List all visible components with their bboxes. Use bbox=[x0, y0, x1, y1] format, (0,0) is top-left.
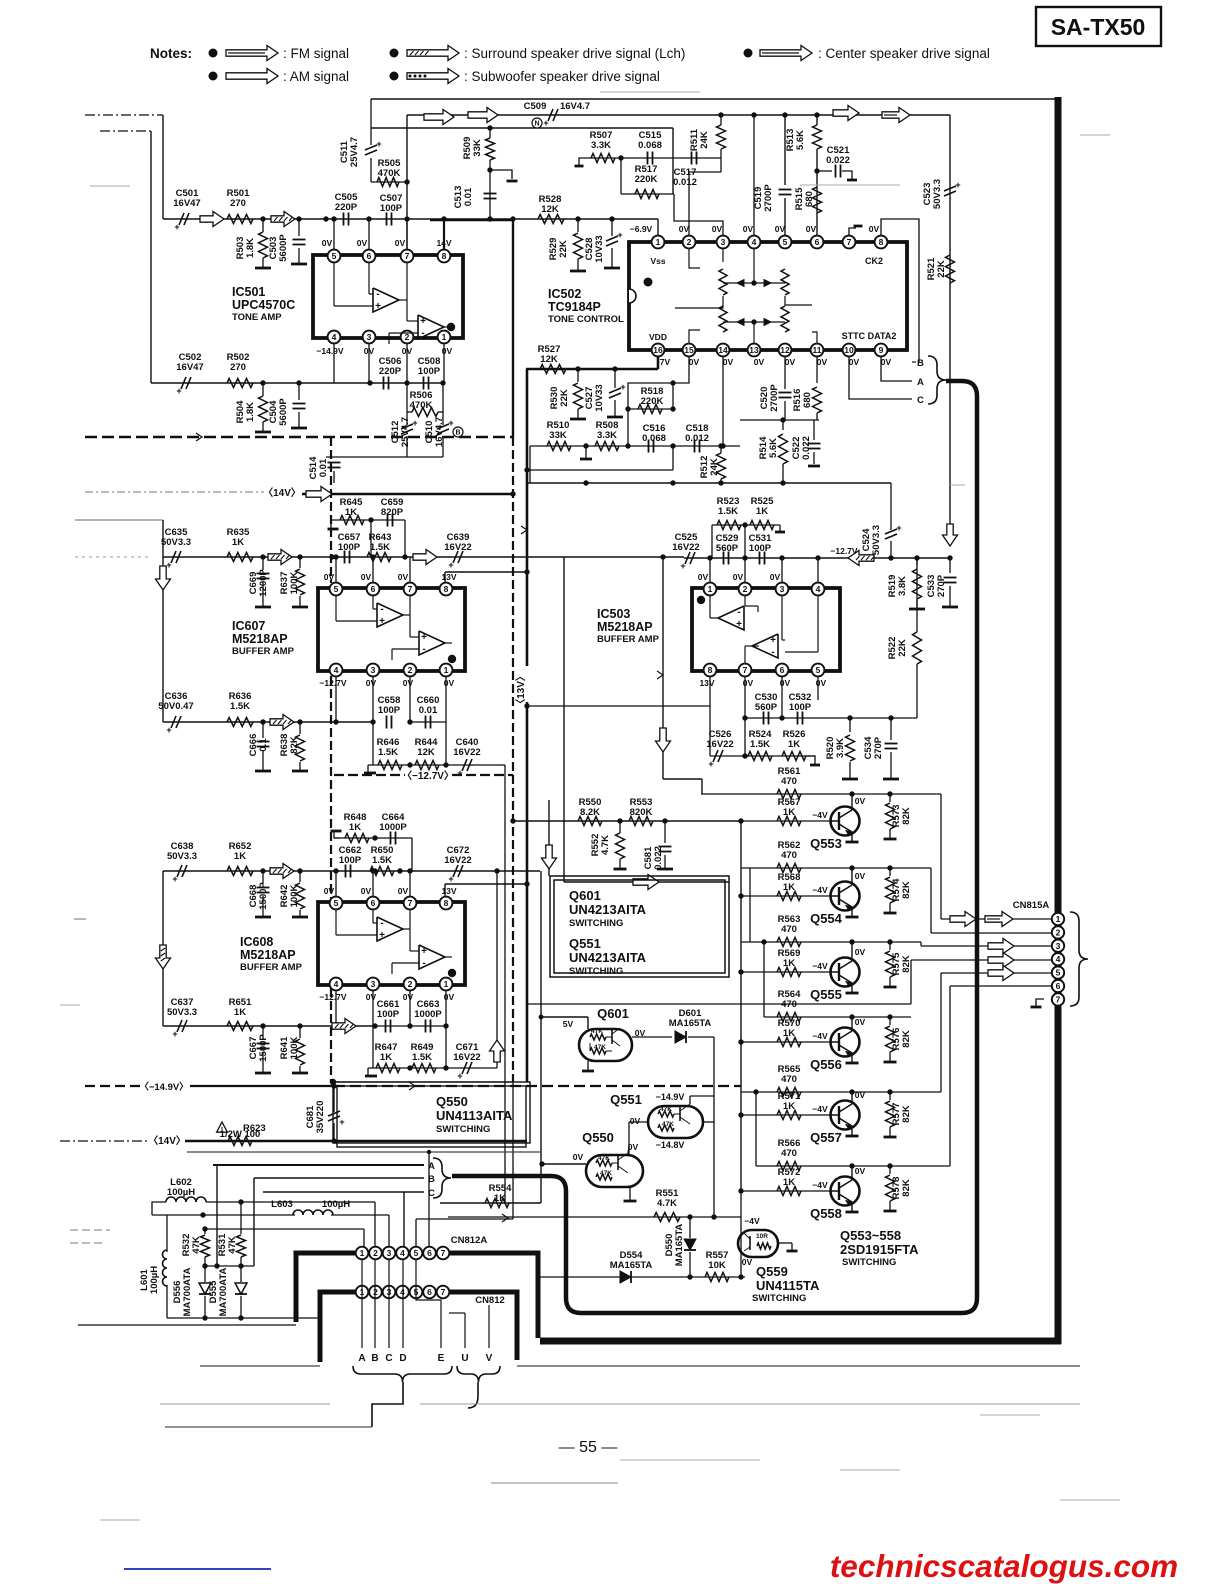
svg-text:4: 4 bbox=[752, 237, 757, 247]
resistor R575 bbox=[886, 951, 895, 977]
wire C511 up bbox=[370, 99, 372, 145]
svg-text:SWITCHING: SWITCHING bbox=[569, 918, 623, 929]
13V feed IC607 pin8 bbox=[445, 571, 527, 573]
svg-text:2: 2 bbox=[687, 237, 692, 247]
svg-text:6: 6 bbox=[1056, 981, 1061, 991]
ground C581 bbox=[657, 868, 673, 871]
IC503 pin stubs bbox=[709, 558, 711, 583]
svg-text:Q551: Q551 bbox=[569, 936, 601, 951]
svg-text:0V: 0V bbox=[361, 572, 372, 582]
brace BAC bbox=[928, 356, 946, 404]
svg-text:−12.7V: −12.7V bbox=[319, 678, 347, 688]
wire vertical x163 input bbox=[162, 115, 164, 219]
capacitor C516 bbox=[648, 440, 650, 453]
op-amp IC501 A bbox=[373, 288, 399, 312]
resistor R636 bbox=[227, 718, 253, 727]
svg-text:5: 5 bbox=[816, 665, 821, 675]
svg-text:3: 3 bbox=[1056, 941, 1061, 951]
svg-text:MA165TA: MA165TA bbox=[674, 1224, 685, 1267]
svg-text:10: 10 bbox=[844, 345, 854, 355]
collector wire Q553 bbox=[851, 794, 853, 810]
svg-text:16V22: 16V22 bbox=[453, 1052, 480, 1063]
resistor R572 bbox=[777, 1187, 801, 1196]
ground R578 bbox=[884, 1210, 897, 1213]
svg-text:0V: 0V bbox=[366, 678, 377, 688]
svg-text:5V: 5V bbox=[563, 1019, 574, 1029]
base wire R569 bbox=[741, 971, 831, 973]
blue underline bottom left bbox=[124, 1568, 271, 1570]
resistor R568 bbox=[777, 892, 801, 901]
dash marks left mid bbox=[70, 1229, 110, 1231]
svg-text:+: + bbox=[176, 386, 181, 396]
C526 R524 R526 row y756 bbox=[710, 755, 815, 757]
svg-text:+: + bbox=[174, 222, 179, 232]
brace UV tail curve bbox=[468, 1382, 478, 1408]
R646 R644 row y765 bbox=[372, 722, 374, 765]
wire y1017 stub to Q601 bbox=[541, 1016, 588, 1018]
svg-text:3: 3 bbox=[367, 332, 372, 342]
svg-text:Q555: Q555 bbox=[810, 987, 842, 1002]
arrow surround y557 bbox=[268, 550, 292, 565]
node x490 bbox=[487, 216, 492, 221]
svg-text:Q601: Q601 bbox=[569, 888, 601, 903]
svg-text:7: 7 bbox=[847, 237, 852, 247]
svg-text:+: + bbox=[448, 874, 453, 884]
svg-text:14: 14 bbox=[718, 345, 728, 355]
svg-text:+: + bbox=[172, 1029, 177, 1039]
diode D556 bbox=[199, 1283, 211, 1294]
svg-text:0.01: 0.01 bbox=[419, 705, 438, 716]
svg-text:33K: 33K bbox=[549, 430, 567, 441]
svg-text:6: 6 bbox=[427, 1287, 432, 1297]
wire x541 long vertical from y871 bbox=[540, 871, 542, 1203]
capacitor C513 bbox=[484, 193, 497, 195]
ground R648 hook bbox=[331, 830, 342, 833]
svg-text:1.5K: 1.5K bbox=[378, 747, 398, 758]
left vertical x163 IC608 with arrow bbox=[162, 871, 164, 1026]
svg-text:16: 16 bbox=[653, 345, 663, 355]
svg-text:220P: 220P bbox=[335, 202, 358, 213]
svg-text:BUFFER AMP: BUFFER AMP bbox=[597, 634, 660, 645]
bold dashed rail y437 bbox=[85, 436, 513, 438]
svg-text:270: 270 bbox=[230, 198, 246, 209]
resistor R623 bbox=[228, 1137, 252, 1146]
svg-text:+: + bbox=[617, 230, 622, 240]
svg-text:Q550: Q550 bbox=[582, 1130, 614, 1145]
resistor R531 bbox=[237, 1235, 246, 1257]
svg-text:SWITCHING: SWITCHING bbox=[842, 1257, 896, 1268]
IC503 pin 7 bbox=[739, 664, 752, 677]
svg-text:100P: 100P bbox=[418, 366, 441, 377]
svg-text:100µH: 100µH bbox=[322, 1199, 350, 1210]
capacitor C515 bbox=[647, 152, 649, 165]
svg-text:CN812A: CN812A bbox=[451, 1235, 488, 1246]
wire vertical x407 to pin7 bbox=[406, 115, 408, 250]
CN812A pin 4 bbox=[396, 1247, 409, 1260]
svg-text:6: 6 bbox=[371, 898, 376, 908]
Q601/Q551 label box outer bbox=[550, 876, 729, 977]
capacitor C659 bbox=[387, 514, 389, 527]
svg-text:7: 7 bbox=[743, 665, 748, 675]
svg-text:1K: 1K bbox=[788, 739, 800, 750]
IC608 internal wires bbox=[335, 910, 337, 935]
wire IC502 pin16 bold row bbox=[526, 368, 658, 371]
svg-text:+: + bbox=[375, 301, 381, 312]
IC607 pin 5 bbox=[330, 583, 343, 596]
svg-text:4.7K: 4.7K bbox=[657, 1198, 677, 1209]
svg-text:Q553: Q553 bbox=[810, 836, 842, 851]
svg-text:1: 1 bbox=[708, 584, 713, 594]
resistor R510 bbox=[547, 442, 571, 451]
IC608 pin 5 bbox=[330, 897, 343, 910]
bold solid vertical x513 upper bbox=[512, 219, 514, 437]
IC608 pin 7 bbox=[404, 897, 417, 910]
collector wire Q556 bbox=[851, 1017, 853, 1031]
svg-text:2: 2 bbox=[408, 979, 413, 989]
svg-text:〈13V〉: 〈13V〉 bbox=[514, 671, 527, 709]
svg-text:50V3.3: 50V3.3 bbox=[871, 525, 882, 555]
R523 R525 row bbox=[712, 524, 780, 526]
svg-text:12K: 12K bbox=[417, 747, 435, 758]
svg-text:6: 6 bbox=[780, 665, 785, 675]
capacitor C510 bbox=[437, 424, 449, 429]
svg-text:0V: 0V bbox=[742, 1257, 753, 1267]
circled B mark bbox=[453, 427, 463, 437]
IC608 pin 8 bbox=[440, 897, 453, 910]
chevron on y437 rail bbox=[196, 433, 202, 441]
Q601 emitter ground bbox=[587, 1061, 589, 1070]
IC503 internal wires bbox=[709, 596, 711, 618]
IC502 pin 1 bbox=[652, 236, 665, 249]
arrow top rail right 1 bbox=[833, 106, 859, 121]
svg-text:: Surround speaker drive signa: : Surround speaker drive signal (Lch) bbox=[464, 46, 685, 61]
wire x673 down to R517 row bbox=[672, 128, 674, 194]
svg-text:1: 1 bbox=[442, 332, 447, 342]
wire y1219 to CN812A pin5 bbox=[416, 1218, 513, 1220]
svg-text:0V: 0V bbox=[357, 238, 368, 248]
CN812A pin 5 bbox=[410, 1247, 423, 1260]
svg-text:E: E bbox=[438, 1353, 445, 1364]
resistor R649 bbox=[412, 1064, 436, 1073]
svg-text:: FM signal: : FM signal bbox=[283, 46, 349, 61]
resistor R504 bbox=[259, 396, 268, 422]
svg-text:A: A bbox=[358, 1353, 365, 1364]
svg-text:1.5K: 1.5K bbox=[372, 855, 392, 866]
resistor R518 bbox=[638, 405, 662, 414]
legend bullet surround bbox=[390, 49, 399, 58]
svg-text:1K: 1K bbox=[232, 537, 244, 548]
svg-text:B: B bbox=[917, 358, 924, 369]
IC502 pin 12 bbox=[779, 344, 792, 357]
svg-text:0V: 0V bbox=[361, 886, 372, 896]
svg-text:3: 3 bbox=[780, 584, 785, 594]
svg-text:SWITCHING: SWITCHING bbox=[752, 1293, 806, 1304]
resistor R561 bbox=[777, 790, 801, 799]
legend bullet FM bbox=[209, 49, 218, 58]
svg-text:-: - bbox=[380, 918, 383, 929]
capacitor C526 bbox=[713, 750, 718, 762]
svg-text:270: 270 bbox=[230, 362, 246, 373]
svg-text:82K: 82K bbox=[901, 807, 912, 825]
CN812A pin 6 bbox=[423, 1247, 436, 1260]
svg-text:270P: 270P bbox=[873, 736, 884, 759]
svg-text:1K: 1K bbox=[783, 1028, 795, 1039]
resistor R521 bbox=[946, 255, 955, 283]
wire x817 to pin6 bbox=[816, 149, 818, 242]
svg-text:2: 2 bbox=[743, 584, 748, 594]
resistor R576 bbox=[886, 1026, 895, 1052]
resistor R557 bbox=[705, 1273, 729, 1282]
L601 box bottom wire bbox=[167, 1317, 320, 1319]
svg-text:C509: C509 bbox=[524, 101, 547, 112]
rail R563 row bbox=[741, 941, 921, 943]
svg-text:0V: 0V bbox=[855, 871, 866, 881]
wire y470 crossing bbox=[527, 469, 673, 471]
op-amp IC607 B bbox=[419, 631, 445, 655]
node pin8 rail bbox=[441, 216, 446, 221]
svg-text:UN4115TA: UN4115TA bbox=[756, 1278, 820, 1293]
rail chain vertical x756 bbox=[755, 1092, 757, 1166]
svg-text:11: 11 bbox=[813, 345, 822, 355]
svg-text:7: 7 bbox=[405, 251, 410, 261]
svg-text:4: 4 bbox=[332, 332, 337, 342]
svg-text:−4V: −4V bbox=[812, 961, 828, 971]
svg-text:0.012: 0.012 bbox=[685, 433, 709, 444]
svg-text:IC501: IC501 bbox=[232, 285, 265, 299]
capacitor C524 bbox=[885, 529, 897, 534]
resistor R635 bbox=[227, 553, 253, 562]
svg-text:0V: 0V bbox=[806, 224, 817, 234]
svg-text:−4V: −4V bbox=[812, 1180, 828, 1190]
svg-text:BUFFER AMP: BUFFER AMP bbox=[240, 962, 303, 973]
IC502 internal pot upper bbox=[719, 269, 727, 295]
node R502 out bbox=[260, 380, 265, 385]
svg-text:+: + bbox=[457, 1071, 462, 1081]
svg-text:BUFFER AMP: BUFFER AMP bbox=[232, 646, 295, 657]
CN815A pin 2 bbox=[1052, 926, 1064, 938]
svg-text:6: 6 bbox=[815, 237, 820, 247]
leg A from CN812 pin 1 bbox=[361, 1259, 363, 1348]
svg-text:Q550: Q550 bbox=[436, 1094, 468, 1109]
IC502 internal pot lower bbox=[719, 306, 727, 332]
emitter ground Q554 bbox=[851, 907, 853, 916]
capacitor C511 bbox=[365, 145, 377, 150]
svg-text:−4V: −4V bbox=[812, 1104, 828, 1114]
leg E bbox=[416, 1259, 441, 1348]
svg-text:0V: 0V bbox=[366, 992, 377, 1002]
wire pin8 to B bbox=[881, 219, 919, 362]
capacitor C505 bbox=[343, 213, 345, 226]
arrow down on x549 bbox=[542, 845, 557, 869]
svg-text:MA165TA: MA165TA bbox=[669, 1018, 712, 1029]
svg-text:13V: 13V bbox=[441, 572, 456, 582]
svg-text:0V: 0V bbox=[398, 886, 409, 896]
ground R530 bbox=[570, 418, 586, 421]
resistor R520 bbox=[846, 735, 855, 761]
svg-text:1.5K: 1.5K bbox=[230, 701, 250, 712]
CN812 pin 3 bbox=[383, 1286, 396, 1299]
IC607 internal wires bbox=[335, 596, 337, 621]
IC501 pin 5 bbox=[328, 250, 341, 263]
svg-text:0V: 0V bbox=[785, 357, 796, 367]
wire x785 to pin5 bbox=[784, 115, 786, 185]
svg-text:4: 4 bbox=[400, 1248, 405, 1258]
capacitor C509 bbox=[548, 109, 553, 121]
svg-text:470: 470 bbox=[781, 850, 797, 861]
resistor R652 bbox=[227, 867, 253, 876]
svg-text:2: 2 bbox=[408, 665, 413, 675]
node 14V x513 bbox=[510, 216, 515, 221]
wire C659 right down bbox=[404, 520, 406, 557]
svg-text:13: 13 bbox=[749, 345, 759, 355]
transistor Q558 bbox=[831, 1177, 860, 1206]
resistor R523 bbox=[717, 521, 741, 530]
resistor R645 bbox=[340, 516, 364, 525]
ground R646 left bbox=[364, 772, 376, 775]
svg-text:13V: 13V bbox=[699, 678, 714, 688]
resistor R515 bbox=[813, 187, 822, 213]
arrows into CN815A pin1 bbox=[950, 912, 976, 927]
svg-text:Vss: Vss bbox=[650, 256, 665, 266]
svg-text:5600P: 5600P bbox=[278, 398, 289, 426]
Q601 internal resistor 47K bbox=[590, 1034, 606, 1040]
ground C503 bbox=[291, 263, 307, 266]
inductor L601 bbox=[163, 1250, 168, 1286]
svg-text:1.5K: 1.5K bbox=[718, 506, 738, 517]
svg-text:3: 3 bbox=[371, 665, 376, 675]
svg-text:B: B bbox=[371, 1353, 378, 1364]
resistor R650 bbox=[370, 867, 394, 876]
bold 14V wire y220 bbox=[430, 219, 513, 221]
CN812A pin3 wire up bbox=[388, 1215, 390, 1247]
svg-text:−12.7V: −12.7V bbox=[319, 992, 347, 1002]
wire x416 down to pin5 bbox=[415, 1219, 417, 1247]
-14.9V dashed rail bbox=[85, 1085, 140, 1087]
base wire R567 bbox=[741, 820, 831, 822]
capacitor C521 bbox=[835, 165, 837, 178]
IC607 pin 2 bbox=[404, 664, 417, 677]
svg-text:5600P: 5600P bbox=[278, 234, 289, 262]
svg-text:5.6K: 5.6K bbox=[795, 130, 806, 150]
svg-text:+: + bbox=[412, 418, 417, 428]
capacitor C528 bbox=[606, 236, 618, 241]
svg-text:C: C bbox=[385, 1353, 392, 1364]
wire top line y99 bbox=[371, 98, 1055, 100]
Q550 base wire bbox=[541, 1163, 586, 1165]
rotated 13V label bbox=[520, 666, 534, 702]
arrow on top rail 1 bbox=[424, 110, 454, 125]
arrow up on x497 bbox=[490, 1040, 505, 1062]
arrow surround y722 bbox=[270, 715, 294, 730]
legend arrow FM signal bbox=[226, 46, 278, 61]
dash-dot lead y557 bbox=[75, 556, 150, 558]
svg-text:-: - bbox=[380, 604, 383, 615]
resistor R505 bbox=[377, 178, 399, 187]
svg-text:1: 1 bbox=[444, 665, 449, 675]
capacitor C518 bbox=[694, 440, 696, 453]
svg-text:VDD: VDD bbox=[649, 332, 667, 342]
brace ABC bottom bbox=[433, 1158, 451, 1198]
capacitor C661 bbox=[385, 1020, 387, 1033]
capacitor C519 bbox=[779, 189, 792, 191]
emitter ground Q553 bbox=[851, 832, 853, 841]
svg-text:−6.9V: −6.9V bbox=[630, 224, 653, 234]
svg-text:〈−14.9V〉: 〈−14.9V〉 bbox=[139, 1081, 188, 1093]
main signal wire 2 y383 bbox=[151, 382, 443, 384]
wire rail R566 to CN815A bbox=[949, 986, 951, 1166]
capacitor C534 bbox=[885, 743, 898, 745]
wire into pin2 bbox=[688, 172, 690, 242]
emitter ground Q557 bbox=[851, 1126, 853, 1135]
left dashes near x75 y920 bbox=[74, 918, 86, 920]
-12.7V dashed rail bbox=[334, 774, 405, 776]
left vertical x163 with arrow bbox=[162, 520, 164, 722]
svg-text:+: + bbox=[448, 560, 453, 570]
svg-text:1K: 1K bbox=[234, 851, 246, 862]
CN812 pin 4 bbox=[396, 1286, 409, 1299]
svg-text:4: 4 bbox=[816, 584, 821, 594]
ground hook R645 bbox=[328, 528, 339, 531]
Q551 collector wire bbox=[689, 1096, 691, 1104]
svg-text:1K: 1K bbox=[783, 882, 795, 893]
capacitor C581 bbox=[659, 846, 672, 848]
svg-text:6: 6 bbox=[367, 251, 372, 261]
svg-text:0V: 0V bbox=[770, 572, 781, 582]
CN812 thick bus right bbox=[449, 1292, 517, 1360]
Q601 internal resistor 47K b bbox=[590, 1048, 606, 1054]
svg-text:+: + bbox=[770, 635, 776, 646]
svg-text:1K: 1K bbox=[783, 807, 795, 818]
R550 R553 row y822 bbox=[513, 820, 741, 822]
resistor R514 bbox=[779, 434, 788, 464]
ground R529 bbox=[570, 270, 586, 273]
IC608 pin 4 bbox=[330, 978, 343, 991]
ground R503 bbox=[255, 267, 271, 270]
bold dashed vertical x513 bbox=[512, 437, 514, 1082]
svg-text:Q557: Q557 bbox=[810, 1130, 842, 1145]
svg-text:-: - bbox=[422, 644, 425, 655]
op-amp IC503 A bbox=[718, 606, 744, 630]
capacitor C506 bbox=[383, 377, 385, 390]
svg-text:TONE AMP: TONE AMP bbox=[232, 312, 282, 323]
collector wire Q558 bbox=[851, 1166, 853, 1180]
svg-text:2: 2 bbox=[373, 1248, 378, 1258]
wire y1427 long bbox=[165, 1426, 372, 1428]
svg-text:8: 8 bbox=[442, 251, 447, 261]
resistor R641 bbox=[296, 1039, 305, 1065]
wire y1004 switching line to CN815A pin4 bbox=[528, 1003, 911, 1005]
bold dashed vertical x332 lowest bbox=[330, 988, 332, 1082]
svg-text:V: V bbox=[486, 1353, 493, 1364]
Q550 emitter ground bbox=[629, 1187, 631, 1200]
CN812 thick bus left bbox=[320, 1292, 355, 1362]
capacitor C635 bbox=[171, 551, 176, 563]
svg-text:D: D bbox=[399, 1353, 406, 1364]
svg-text:1.8K: 1.8K bbox=[245, 402, 256, 422]
svg-text:M5218AP: M5218AP bbox=[240, 948, 296, 962]
wire x429 to CN812A pin6 bbox=[428, 1152, 430, 1247]
svg-text:+: + bbox=[896, 523, 901, 533]
svg-text:IC503: IC503 bbox=[597, 607, 630, 621]
svg-text:Q558: Q558 bbox=[810, 1206, 842, 1221]
svg-text:〈14V〉: 〈14V〉 bbox=[263, 486, 301, 499]
Q550 label box inner bbox=[337, 1086, 526, 1147]
node C505 in bbox=[323, 216, 328, 221]
arrow left into IC503 bbox=[848, 551, 874, 566]
capacitor C638 bbox=[177, 865, 182, 877]
input dash-dot stub 2 bbox=[100, 130, 151, 132]
svg-text:CN815A: CN815A bbox=[1013, 900, 1050, 911]
